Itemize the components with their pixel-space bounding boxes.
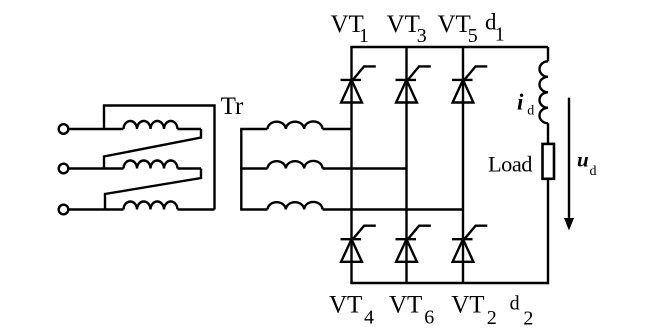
wire phase C input: [68, 208, 123, 210]
wire phase A input: [68, 128, 123, 130]
wire delta loop P3-P1: [104, 106, 215, 210]
inductor Ld: [540, 61, 549, 123]
wire delta link P2-P3: [105, 169, 201, 210]
svg-text:VT: VT: [389, 292, 422, 319]
terminal B: [59, 164, 69, 174]
thyristor VT5: [452, 66, 487, 102]
svg-text:1: 1: [359, 25, 369, 47]
thyristor VT1: [341, 66, 376, 102]
label VT1: [331, 11, 369, 47]
arrow ud: [564, 98, 574, 231]
wire spine to S1: [240, 128, 267, 130]
svg-text:6: 6: [424, 306, 434, 328]
svg-text:1: 1: [495, 24, 505, 46]
svg-text:d: d: [590, 164, 597, 179]
svg-text:Load: Load: [488, 152, 532, 177]
wire delta link P1-P2: [104, 129, 201, 169]
primary winding P1: [124, 121, 178, 129]
wire bottom bus d2: [350, 282, 548, 284]
wire phase c to bridge: [323, 208, 464, 210]
label VT6: [389, 292, 434, 328]
svg-text:d: d: [527, 103, 534, 118]
primary winding P2: [124, 161, 178, 169]
svg-text:3: 3: [417, 25, 427, 47]
wire bridge leg 3: [462, 47, 464, 283]
thyristor VT2: [452, 226, 487, 262]
wire bridge leg 2: [405, 47, 407, 283]
wire P2 to wedge: [178, 167, 202, 169]
wire phase b to bridge: [323, 167, 407, 169]
node d2: [510, 292, 534, 328]
wire P1 to wedge: [178, 128, 202, 130]
secondary winding S2: [268, 161, 323, 169]
svg-text:VT: VT: [451, 292, 484, 319]
wire load to bottom bus: [547, 179, 549, 284]
svg-text:4: 4: [364, 306, 374, 328]
wire top bus d1: [350, 46, 548, 48]
svg-text:2: 2: [523, 307, 533, 328]
label VT5: [438, 11, 478, 47]
wire right rail top: [547, 47, 549, 61]
label Load: [488, 152, 532, 177]
wire secondary neutral spine: [240, 129, 242, 210]
secondary winding S3: [268, 202, 323, 210]
terminal C: [59, 205, 69, 215]
primary winding P3: [124, 202, 178, 210]
label VT3: [387, 11, 427, 47]
transformer Tr label: [221, 93, 244, 120]
wire P3 to delta loop: [178, 208, 215, 210]
svg-text:5: 5: [468, 25, 478, 47]
label id: [517, 90, 534, 119]
svg-text:d: d: [510, 292, 520, 314]
thyristor VT6: [396, 226, 431, 262]
terminal A: [59, 124, 69, 134]
svg-text:Tr: Tr: [221, 93, 244, 120]
svg-text:i: i: [517, 90, 524, 115]
wire inductor to load: [547, 123, 549, 144]
wire phase B input: [68, 167, 123, 169]
svg-text:VT: VT: [387, 11, 420, 38]
wire spine to S2: [240, 167, 267, 169]
label ud: [577, 148, 597, 179]
svg-text:2: 2: [487, 307, 497, 328]
svg-text:VT: VT: [438, 11, 471, 38]
resistor Load: [543, 144, 555, 179]
wire phase a to bridge: [323, 128, 352, 130]
thyristor VT3: [396, 66, 431, 102]
svg-text:VT: VT: [329, 292, 362, 319]
svg-text:u: u: [577, 148, 589, 172]
wire bridge leg 1: [350, 47, 352, 283]
node d1: [485, 10, 505, 46]
label VT4: [329, 292, 374, 328]
secondary winding S1: [268, 121, 323, 129]
label VT2: [451, 292, 497, 328]
wire spine to S3: [240, 208, 267, 210]
thyristor VT4: [341, 226, 376, 262]
